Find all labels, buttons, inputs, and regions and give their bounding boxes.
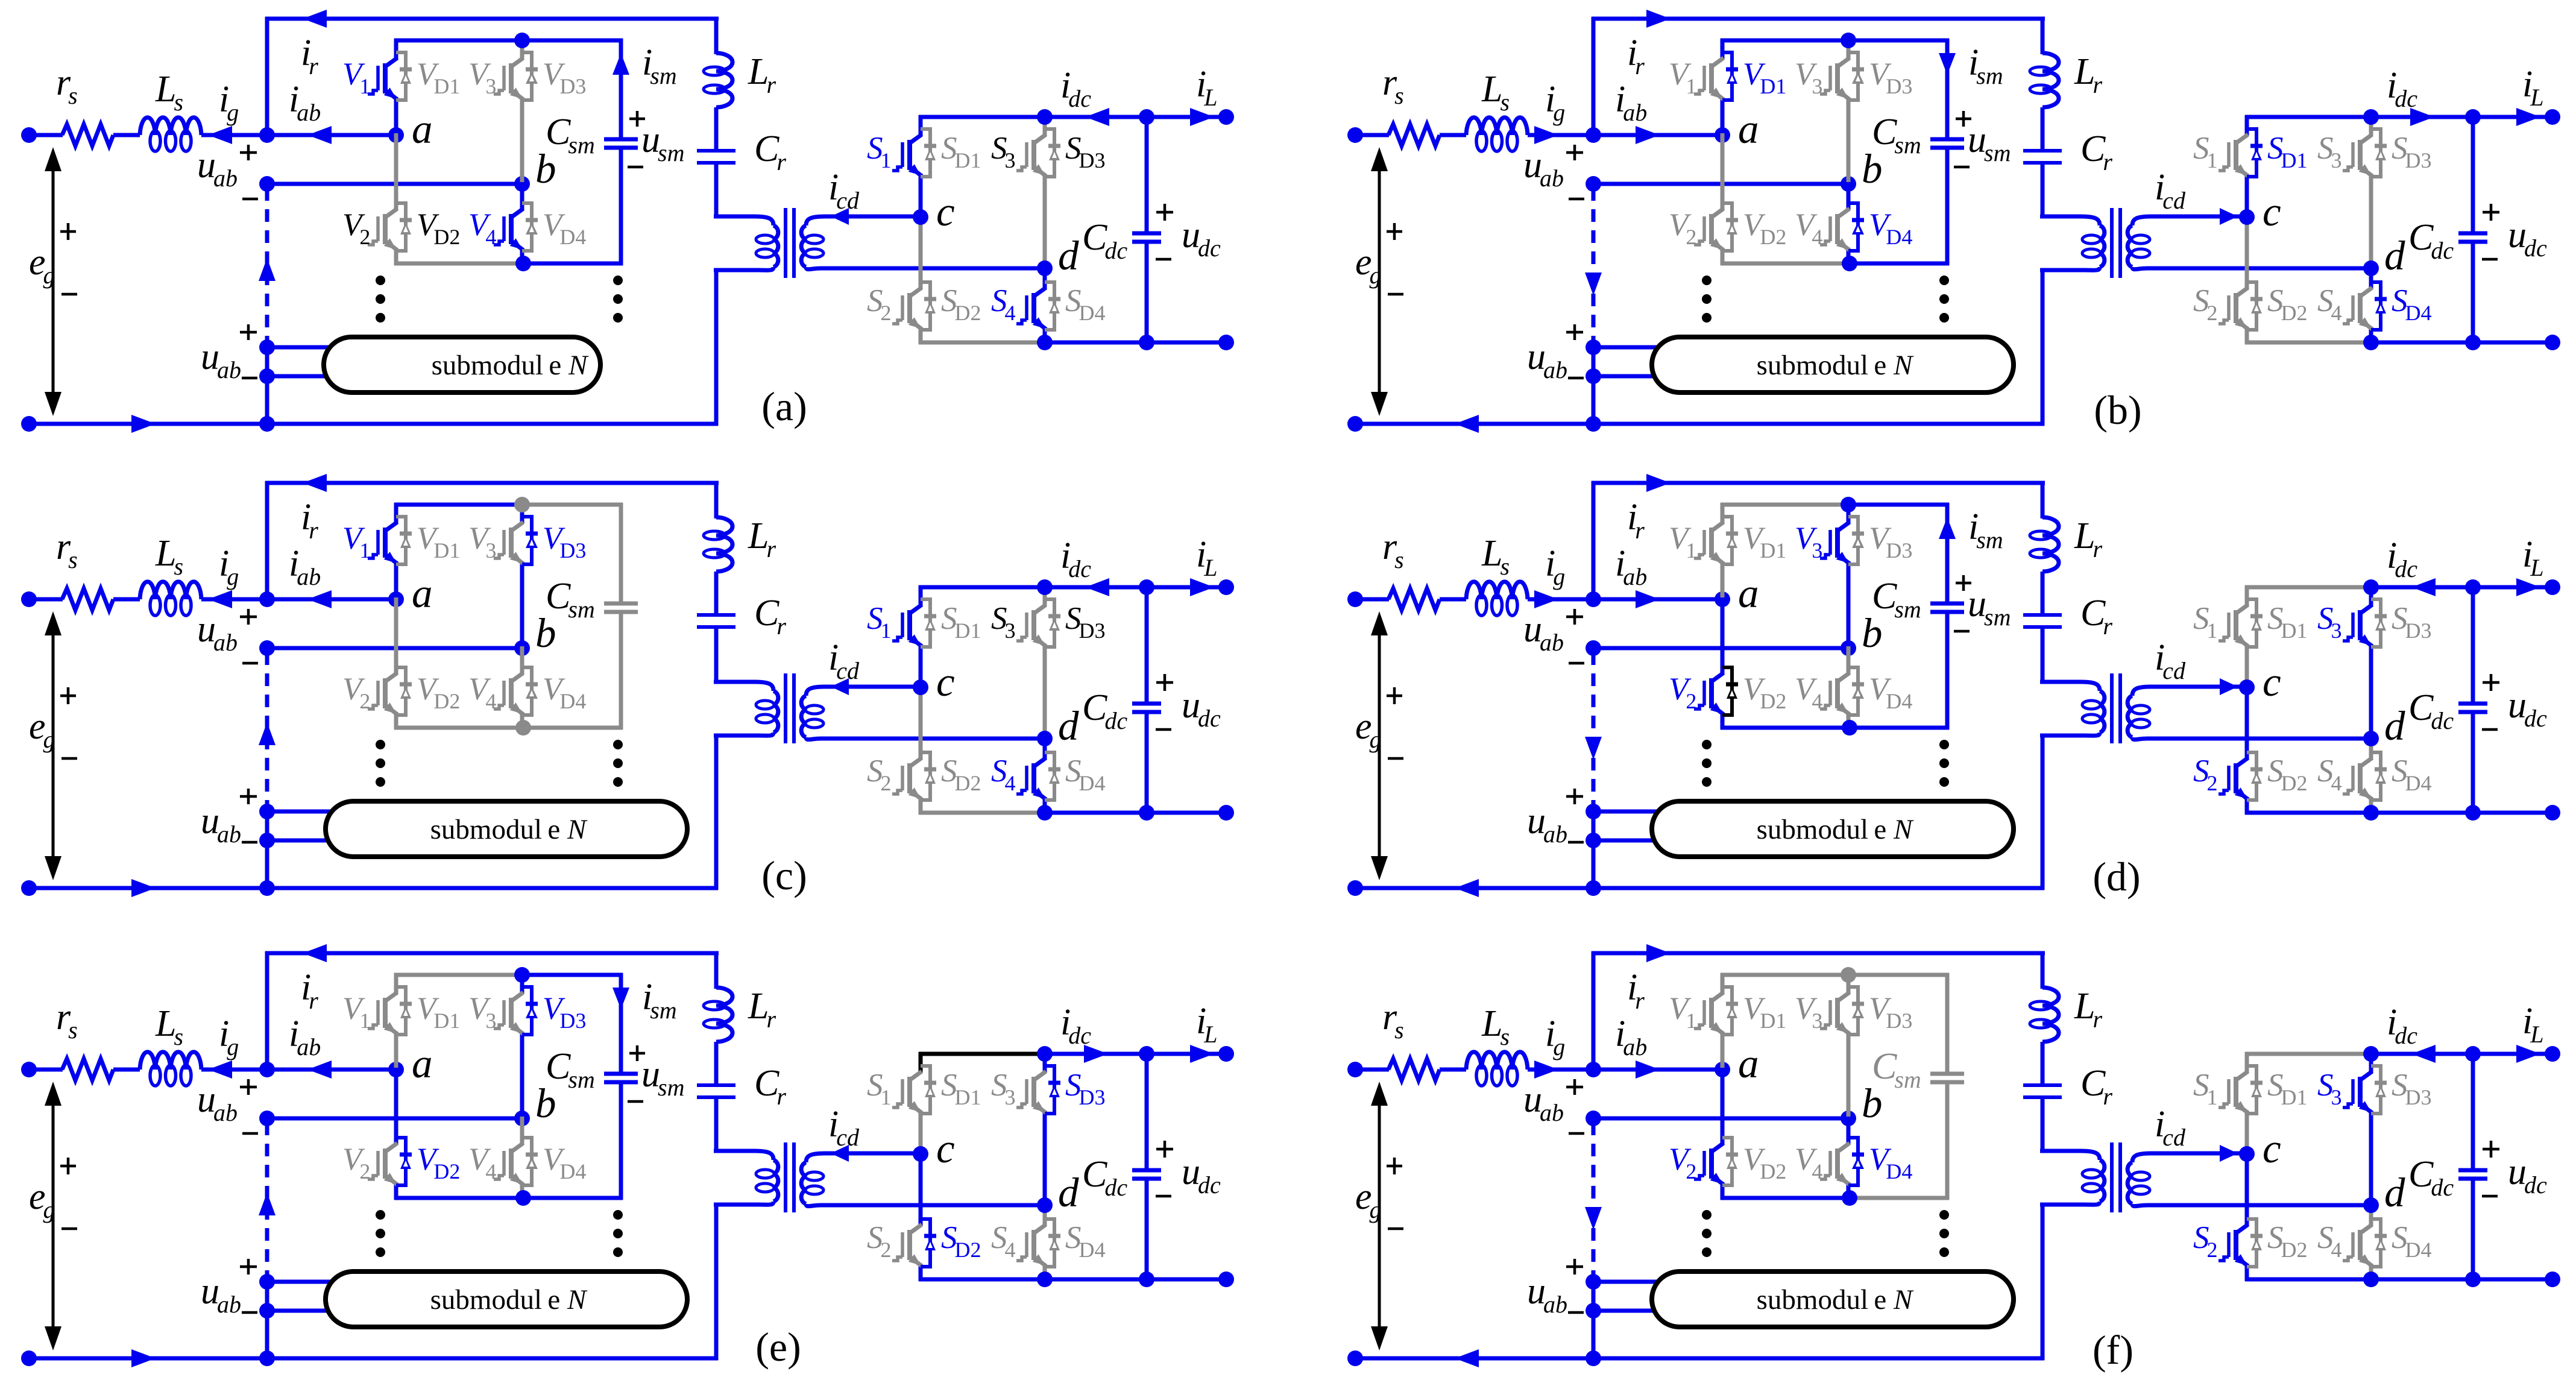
(f) top resonant wire with ir arrow bbox=[1592, 951, 2045, 956]
(e) capacitor Cdc branch top bbox=[1145, 1054, 1149, 1170]
(b) transistor S2 bbox=[2245, 215, 2249, 289]
(e) node b bbox=[514, 1111, 530, 1126]
(a) rectifier top rail node 1 bbox=[1037, 109, 1053, 125]
(b) submodule rail top-left segment bbox=[1721, 39, 1848, 43]
(b) wire terminals vertical bbox=[1592, 347, 1596, 376]
svg-text:b: b bbox=[1862, 1080, 1883, 1126]
(d) chain ellipsis left bbox=[1702, 740, 1712, 749]
(e) eg minus bbox=[61, 1227, 77, 1230]
(b) capacitor Csm branch wire bottom bbox=[1945, 148, 1950, 265]
(a) submodule rail top-left segment bbox=[394, 39, 522, 43]
(a) rectifier rail top-middle with idc arrow bbox=[1045, 115, 1147, 119]
(d) top resonant wire with ir arrow bbox=[1592, 481, 2045, 485]
(f) submodule N box bbox=[1652, 1271, 2014, 1327]
(e) dashed submodule chain wire bbox=[265, 1123, 269, 1278]
(d) usm plus bbox=[1956, 582, 1971, 585]
(e) riser top-left vertical bbox=[265, 951, 269, 1070]
(a) transformer core bbox=[784, 208, 787, 278]
(d) submodule rail bottom-right segment bbox=[1848, 726, 1949, 730]
(c) chain ellipsis left bbox=[376, 740, 385, 749]
(b) grid terminal node left bbox=[1347, 127, 1363, 143]
(e) rectifier bottom rail node 2 bbox=[1139, 1271, 1154, 1287]
(b) transformer core bbox=[2110, 208, 2114, 278]
(b) rectifier rail top-left bbox=[2245, 115, 2371, 119]
(e) chain ellipsis left bbox=[376, 1210, 385, 1220]
(f) transistor V3 bbox=[1847, 973, 1851, 994]
(d) udc minus bbox=[2482, 728, 2498, 731]
(e) rectifier rail bottom-left bbox=[919, 1278, 1045, 1282]
(a) dashed submodule chain wire bbox=[265, 188, 269, 344]
(e) rectifier rail bottom-right bbox=[1147, 1278, 1226, 1282]
(f) uab plus sign bbox=[1566, 1086, 1583, 1089]
(b) wire inductor to junction with ig arrow bbox=[1528, 133, 1593, 137]
(a) rail bottom junction dot bbox=[515, 256, 531, 271]
(f) inductor Lr bbox=[2042, 988, 2059, 1006]
(b) wire node b row bbox=[1593, 182, 1848, 186]
(a) rectifier rail bottom-middle bbox=[1045, 341, 1147, 345]
(e) transistor V4 bbox=[520, 1117, 524, 1145]
(d) submodule rail bottom-left segment bbox=[1721, 726, 1848, 730]
(f) eg plus bbox=[1387, 1165, 1402, 1168]
(d) transistor V4 bbox=[1847, 646, 1851, 675]
(b) load terminal bottom bbox=[2545, 335, 2560, 350]
(b) bottom return wire bbox=[1355, 422, 2044, 426]
(b) transistor V4 bbox=[1847, 182, 1851, 210]
(a) submodule N minus terminal bbox=[259, 368, 275, 384]
(e) inductor Lr bbox=[716, 988, 732, 1006]
svg-text:c: c bbox=[2263, 659, 2281, 705]
(e) grid terminal node left bbox=[21, 1062, 37, 1077]
(b) ism current arrow bbox=[1939, 53, 1956, 75]
(f) rectifier top rail node 2 bbox=[2465, 1046, 2481, 1062]
(c) wire transformer primary return bbox=[714, 734, 719, 890]
(a) rectifier rail bottom-right bbox=[1147, 341, 1226, 345]
(f) submodule N plus terminal bbox=[1586, 1274, 1601, 1290]
svg-text:a: a bbox=[1738, 570, 1759, 616]
(f) rectifier rail bottom-left bbox=[2245, 1278, 2371, 1282]
(f) wire to submodule N minus bbox=[1593, 1309, 1667, 1313]
(c) resistor rs bbox=[62, 588, 113, 610]
(d) rail bottom junction dot bbox=[1842, 720, 1857, 736]
(e) uab plus sign bbox=[240, 1086, 257, 1089]
(c) riser top-left vertical bbox=[265, 481, 269, 599]
(f) wire Lr to Cr bbox=[2041, 1042, 2045, 1085]
(a) transistor S4 bbox=[1043, 266, 1047, 289]
(d) junction node (uab+) bbox=[1586, 591, 1601, 607]
(f) submodule N minus terminal bbox=[1586, 1303, 1601, 1319]
(c) submodule rail top-left segment bbox=[394, 503, 522, 507]
(b) node b wire terminal bbox=[1586, 176, 1601, 192]
(e) rectifier top rail node 1 bbox=[1037, 1046, 1053, 1062]
(d) capacitor Csm branch wire bottom bbox=[1945, 612, 1950, 729]
(d) rectifier rail top-right with iL arrow bbox=[2473, 585, 2552, 590]
(b) wire junction to node a with iab arrow bbox=[1593, 133, 1722, 137]
(d) node a bbox=[1715, 591, 1730, 607]
(e) ism current arrow bbox=[613, 988, 629, 1009]
(d) inductor Lr bbox=[2042, 517, 2059, 535]
(a) inductor Lr bbox=[716, 53, 732, 71]
(b) submodule N box bbox=[1652, 337, 2014, 392]
(f) wire transformer primary return bbox=[2041, 1203, 2045, 1360]
(e) rectifier rail bottom-middle bbox=[1045, 1278, 1147, 1282]
(c) capacitor Cdc branch bottom bbox=[1145, 712, 1149, 813]
(e) submodule N plus terminal bbox=[259, 1274, 275, 1290]
(e) wire resistor to inductor bbox=[113, 1068, 140, 1072]
(d) load terminal bottom bbox=[2545, 805, 2560, 821]
(b) node d bbox=[2363, 260, 2379, 276]
(f) udc minus bbox=[2482, 1195, 2498, 1198]
panel (f) bbox=[1347, 944, 2560, 1373]
svg-text:b: b bbox=[1862, 146, 1883, 192]
(a) udc plus bbox=[1156, 211, 1173, 214]
(d) eg plus bbox=[1387, 695, 1402, 698]
(d) ism current arrow bbox=[1939, 517, 1956, 539]
(f) transistor V1 bbox=[1721, 973, 1725, 994]
(b) wire top to Lr bbox=[2041, 17, 2045, 54]
(c) rectifier top rail node 2 bbox=[1139, 579, 1154, 595]
(e) transformer core bbox=[784, 1142, 787, 1212]
(a) node a bbox=[388, 127, 404, 143]
(d) bottom left terminal bbox=[1347, 880, 1363, 896]
(c) rectifier rail top-left bbox=[919, 585, 1045, 590]
(d) submodule N minus sign bbox=[1568, 841, 1584, 844]
(e) wire node b row bbox=[267, 1117, 522, 1121]
(e) eg plus bbox=[60, 1165, 76, 1168]
(b) capacitor Csm branch wire top bbox=[1945, 39, 1950, 139]
(e) wire Lr to Cr bbox=[714, 1042, 719, 1085]
(c) wire submodule minus down bbox=[265, 840, 269, 888]
(d) transistor V2 bbox=[1721, 597, 1725, 675]
(c) dashed submodule chain wire bbox=[265, 652, 269, 808]
(f) capacitor Csm branch wire top bbox=[1945, 973, 1950, 1074]
svg-text:c: c bbox=[936, 189, 955, 235]
(a) transistor V3 bbox=[520, 39, 524, 60]
(e) transistor S3 bbox=[1043, 1052, 1047, 1073]
(b) uab plus sign bbox=[1566, 151, 1583, 154]
(e) submodule N minus terminal bbox=[259, 1303, 275, 1319]
(e) uab minus sign bbox=[242, 1132, 258, 1135]
(b) rectifier top rail node 1 bbox=[2363, 109, 2379, 125]
(f) node a bbox=[1715, 1062, 1730, 1077]
(e) capacitor Csm bbox=[604, 1072, 638, 1076]
(c) transistor S3 bbox=[1043, 585, 1047, 607]
(a) capacitor Csm branch wire top bbox=[619, 39, 623, 139]
(c) transistor V2 bbox=[394, 597, 398, 675]
(c) transistor S1 bbox=[919, 585, 923, 607]
(c) wire transformer to node d bbox=[864, 737, 1045, 741]
(b) rectifier rail bottom-right bbox=[2473, 341, 2552, 345]
svg-text:submodul e N: submodul e N bbox=[432, 350, 589, 381]
(d) wire Lr to Cr bbox=[2041, 572, 2045, 615]
(c) rectifier rail bottom-right bbox=[1147, 811, 1226, 815]
panel (b) bbox=[1347, 10, 2560, 433]
(b) transistor V3 bbox=[1847, 39, 1851, 60]
(f) wire resistor to inductor bbox=[1440, 1068, 1466, 1072]
svg-text:(b): (b) bbox=[2094, 387, 2141, 433]
(a) transistor V2 bbox=[394, 133, 398, 210]
(e) top resonant wire with ir arrow bbox=[265, 951, 719, 956]
svg-text:submodul e N: submodul e N bbox=[1757, 1284, 1914, 1316]
(e) chain ellipsis right bbox=[613, 1210, 623, 1220]
(e) resistor rs bbox=[62, 1059, 113, 1080]
(b) junction node (uab+) bbox=[1586, 127, 1601, 143]
(a) uab plus sign bbox=[240, 151, 257, 154]
(e) wire transformer primary return bbox=[714, 1203, 719, 1360]
(f) transistor S4 bbox=[2369, 1203, 2373, 1226]
svg-text:b: b bbox=[535, 610, 556, 656]
(a) capacitor Csm branch wire bottom bbox=[619, 148, 623, 265]
(d) node d bbox=[2363, 731, 2379, 746]
(e) junction node (uab+) bbox=[259, 1062, 275, 1077]
(c) uab plus sign bbox=[240, 616, 257, 619]
(c) capacitor Csm bbox=[604, 602, 638, 606]
(a) rectifier rail top-left bbox=[919, 115, 1045, 119]
(b) rectifier rail top-middle with idc arrow bbox=[2371, 115, 2473, 119]
svg-text:(a): (a) bbox=[761, 383, 807, 429]
(b) capacitor Cr bbox=[2023, 149, 2062, 153]
(c) node d bbox=[1037, 731, 1053, 746]
(f) submodule rail bottom-left segment bbox=[1721, 1196, 1848, 1200]
(c) rectifier rail bottom-left bbox=[919, 811, 1045, 815]
(a) wire top to Lr bbox=[714, 17, 719, 54]
(e) wire transformer to node d bbox=[864, 1203, 1045, 1208]
(d) wire to submodule N plus bbox=[1593, 810, 1667, 814]
(d) wire transformer to node d bbox=[2190, 737, 2371, 741]
(f) dashed submodule chain wire bbox=[1592, 1123, 1596, 1278]
(a) usm minus bbox=[628, 166, 643, 169]
(c) inductor Ls bbox=[140, 582, 156, 599]
(c) udc minus bbox=[1156, 728, 1171, 731]
(b) wire resistor to inductor bbox=[1440, 133, 1466, 137]
(b) rectifier bottom rail node 1 bbox=[2363, 335, 2379, 350]
(c) rail bottom junction dot bbox=[515, 720, 531, 736]
(a) transistor S1 bbox=[919, 115, 923, 136]
(b) submodule N minus terminal bbox=[1586, 368, 1601, 384]
(f) node d bbox=[2363, 1197, 2379, 1213]
svg-text:c: c bbox=[936, 1126, 955, 1171]
(c) transformer core bbox=[784, 673, 787, 743]
(c) rectifier top rail node 1 bbox=[1037, 579, 1053, 595]
(b) transistor V1 bbox=[1721, 39, 1725, 60]
(c) capacitor Cr bbox=[697, 613, 735, 617]
svg-text:submodul e N: submodul e N bbox=[1757, 814, 1914, 845]
(c) load terminal bottom bbox=[1218, 805, 1234, 821]
(f) bottom return node bbox=[1586, 1350, 1601, 1366]
(c) bottom left terminal bbox=[21, 880, 37, 896]
(d) rectifier top rail node 1 bbox=[2363, 579, 2379, 595]
(d) uab minus sign bbox=[1569, 662, 1584, 665]
(b) transistor S1 bbox=[2245, 115, 2249, 136]
(f) wire terminals vertical bbox=[1592, 1282, 1596, 1311]
(f) source voltage eg double arrow bbox=[1378, 1090, 1381, 1342]
(e) node d bbox=[1037, 1197, 1053, 1213]
(e) capacitor Cdc branch bottom bbox=[1145, 1179, 1149, 1279]
(a) wire to submodule N plus bbox=[267, 345, 341, 350]
(d) capacitor Cdc branch bottom bbox=[2471, 712, 2475, 813]
(d) submodule N plus sign bbox=[1566, 795, 1583, 798]
(e) node c bbox=[913, 1146, 928, 1162]
(b) submodule rail bottom-left segment bbox=[1721, 262, 1848, 266]
(f) transistor V2 bbox=[1721, 1068, 1725, 1145]
(e) wire Cr to transformer bbox=[714, 1097, 719, 1153]
(e) bottom return wire bbox=[29, 1357, 718, 1361]
(b) transformer primary winding bbox=[2040, 216, 2100, 225]
(e) usm plus bbox=[629, 1052, 645, 1055]
(d) node b bbox=[1841, 640, 1856, 656]
(b) riser top-left vertical bbox=[1592, 17, 1596, 135]
(a) load terminal bottom bbox=[1218, 335, 1234, 350]
(e) rail bottom junction dot bbox=[515, 1190, 531, 1206]
(f) transistor S2 bbox=[2245, 1152, 2249, 1226]
(d) source voltage eg double arrow bbox=[1378, 620, 1381, 872]
(d) rectifier bottom rail node 1 bbox=[2363, 805, 2379, 821]
(d) wire transformer to node c with icd arrow bbox=[2190, 685, 2247, 689]
(d) riser top-left vertical bbox=[1592, 481, 1596, 599]
(c) rail top junction dot bbox=[514, 497, 530, 512]
(a) rectifier bottom rail node 2 bbox=[1139, 335, 1154, 350]
(b) eg minus bbox=[1388, 293, 1403, 296]
(b) chain ellipsis left bbox=[1702, 276, 1712, 285]
(c) node b bbox=[514, 640, 530, 656]
(e) capacitor Csm branch wire top bbox=[619, 973, 623, 1074]
(f) grid terminal node left bbox=[1347, 1062, 1363, 1077]
(f) eg minus bbox=[1388, 1227, 1403, 1230]
(c) wire to submodule N minus bbox=[267, 839, 341, 843]
(f) rectifier rail bottom-middle bbox=[2371, 1278, 2473, 1282]
(e) submodule N plus sign bbox=[240, 1265, 257, 1268]
(f) rectifier rail bottom-right bbox=[2473, 1278, 2552, 1282]
(a) transformer secondary winding bbox=[806, 216, 866, 225]
svg-text:d: d bbox=[1058, 703, 1079, 749]
(a) inductor Ls bbox=[140, 118, 156, 135]
(e) submodule N minus sign bbox=[242, 1311, 257, 1314]
(c) eg plus bbox=[60, 695, 76, 698]
(c) inductor Lr bbox=[716, 517, 732, 535]
(a) wire transformer primary return bbox=[714, 268, 719, 426]
(a) chain ellipsis right bbox=[613, 276, 623, 285]
(f) transistor S3 bbox=[2369, 1052, 2373, 1073]
svg-text:b: b bbox=[535, 146, 556, 192]
(f) rectifier rail top-right with iL arrow bbox=[2473, 1052, 2552, 1056]
svg-text:c: c bbox=[936, 659, 955, 705]
(e) node a bbox=[388, 1062, 404, 1077]
(e) wire terminals vertical bbox=[265, 1282, 269, 1311]
panel (c) bbox=[21, 474, 1234, 898]
(d) submodule rail top-left segment bbox=[1721, 503, 1848, 507]
(f) capacitor Cdc branch top bbox=[2471, 1054, 2475, 1170]
(a) node b wire terminal bbox=[259, 176, 275, 192]
(d) transistor S2 bbox=[2245, 685, 2249, 760]
svg-text:d: d bbox=[2384, 233, 2405, 279]
(b) wire source to resistor bbox=[1355, 133, 1389, 137]
(a) submodule N minus sign bbox=[242, 377, 257, 380]
(c) wire to submodule N plus bbox=[267, 810, 341, 814]
(f) wire source to resistor bbox=[1355, 1068, 1389, 1072]
(b) bottom left terminal bbox=[1347, 416, 1363, 432]
(e) usm minus bbox=[628, 1100, 643, 1103]
(d) rectifier bottom rail node 2 bbox=[2465, 805, 2481, 821]
(c) rectifier bottom rail node 2 bbox=[1139, 805, 1154, 821]
(b) wire transformer to node d bbox=[2190, 266, 2371, 271]
(a) udc minus bbox=[1156, 258, 1171, 261]
(d) wire source to resistor bbox=[1355, 597, 1389, 602]
(b) load terminal top bbox=[2545, 109, 2560, 125]
(b) wire submodule minus down bbox=[1592, 376, 1596, 424]
(a) wire to submodule N minus bbox=[267, 374, 341, 379]
(a) capacitor Csm bbox=[604, 137, 638, 142]
(a) wire transformer to node c with icd arrow bbox=[864, 215, 921, 219]
(f) submodule N minus sign bbox=[1568, 1311, 1584, 1314]
(d) udc plus bbox=[2483, 681, 2499, 684]
(d) wire inductor to junction with ig arrow bbox=[1528, 597, 1593, 602]
(b) eg plus bbox=[1387, 230, 1402, 233]
svg-text:submodul e N: submodul e N bbox=[430, 814, 588, 845]
(f) chain ellipsis right bbox=[1939, 1210, 1949, 1220]
(e) udc minus bbox=[1156, 1195, 1171, 1198]
(d) bottom return wire bbox=[1355, 886, 2044, 890]
(a) wire resistor to inductor bbox=[113, 133, 140, 137]
(f) capacitor Cr bbox=[2023, 1083, 2062, 1087]
(d) transistor V1 bbox=[1721, 503, 1725, 524]
(a) chain ellipsis left bbox=[376, 276, 385, 285]
(d) capacitor Cdc branch top bbox=[2471, 587, 2475, 704]
(f) load terminal bottom bbox=[2545, 1271, 2560, 1287]
(d) capacitor Csm branch wire top bbox=[1945, 503, 1950, 603]
(a) wire submodule minus down bbox=[265, 376, 269, 424]
(c) bottom return wire bbox=[29, 886, 718, 890]
(f) wire Cr to transformer bbox=[2041, 1097, 2045, 1153]
(d) submodule N box bbox=[1652, 801, 2014, 857]
(d) rectifier rail bottom-left bbox=[2245, 811, 2371, 815]
svg-text:a: a bbox=[1738, 1041, 1759, 1086]
(a) load terminal top bbox=[1218, 109, 1234, 125]
(c) udc plus bbox=[1156, 681, 1173, 684]
(e) capacitor Csm branch wire bottom bbox=[619, 1082, 623, 1200]
(a) bottom return node bbox=[259, 416, 275, 432]
(d) wire transformer primary return bbox=[2041, 734, 2045, 890]
(b) node a bbox=[1715, 127, 1730, 143]
(d) rectifier rail top-left bbox=[2245, 585, 2371, 590]
(c) submodule rail bottom-left segment bbox=[394, 726, 522, 730]
(e) wire to submodule N plus bbox=[267, 1280, 341, 1284]
(a) eg plus bbox=[60, 230, 76, 233]
(b) wire to submodule N plus bbox=[1593, 345, 1667, 350]
(b) rail bottom junction dot bbox=[1842, 256, 1857, 271]
svg-text:(f): (f) bbox=[2093, 1327, 2134, 1373]
(f) load terminal top bbox=[2545, 1046, 2560, 1062]
(c) submodule N minus terminal bbox=[259, 833, 275, 848]
(d) transistor V3 bbox=[1847, 503, 1851, 524]
(b) top resonant wire with ir arrow bbox=[1592, 17, 2045, 21]
(d) wire submodule minus down bbox=[1592, 840, 1596, 888]
(f) inductor Ls bbox=[1466, 1052, 1482, 1070]
(b) submodule rail bottom-right segment bbox=[1848, 262, 1949, 266]
(c) node b wire terminal bbox=[259, 640, 275, 656]
(c) bottom return node bbox=[259, 880, 275, 896]
(b) chain ellipsis right bbox=[1939, 276, 1949, 285]
(b) wire transformer primary return bbox=[2041, 268, 2045, 426]
(e) rectifier rail top-middle with idc arrow bbox=[1045, 1052, 1147, 1056]
(b) submodule N minus sign bbox=[1568, 377, 1584, 380]
(f) rectifier top rail node 1 bbox=[2363, 1046, 2379, 1062]
(c) transistor S2 bbox=[919, 685, 923, 760]
(d) transformer secondary winding bbox=[2132, 687, 2192, 696]
svg-text:submodul e N: submodul e N bbox=[1757, 350, 1914, 381]
(e) rectifier rail top-right with iL arrow bbox=[1147, 1052, 1226, 1056]
(a) wire node b row bbox=[267, 182, 522, 186]
(f) wire transformer to node c with icd arrow bbox=[2190, 1152, 2247, 1156]
svg-text:(d): (d) bbox=[2093, 854, 2140, 900]
